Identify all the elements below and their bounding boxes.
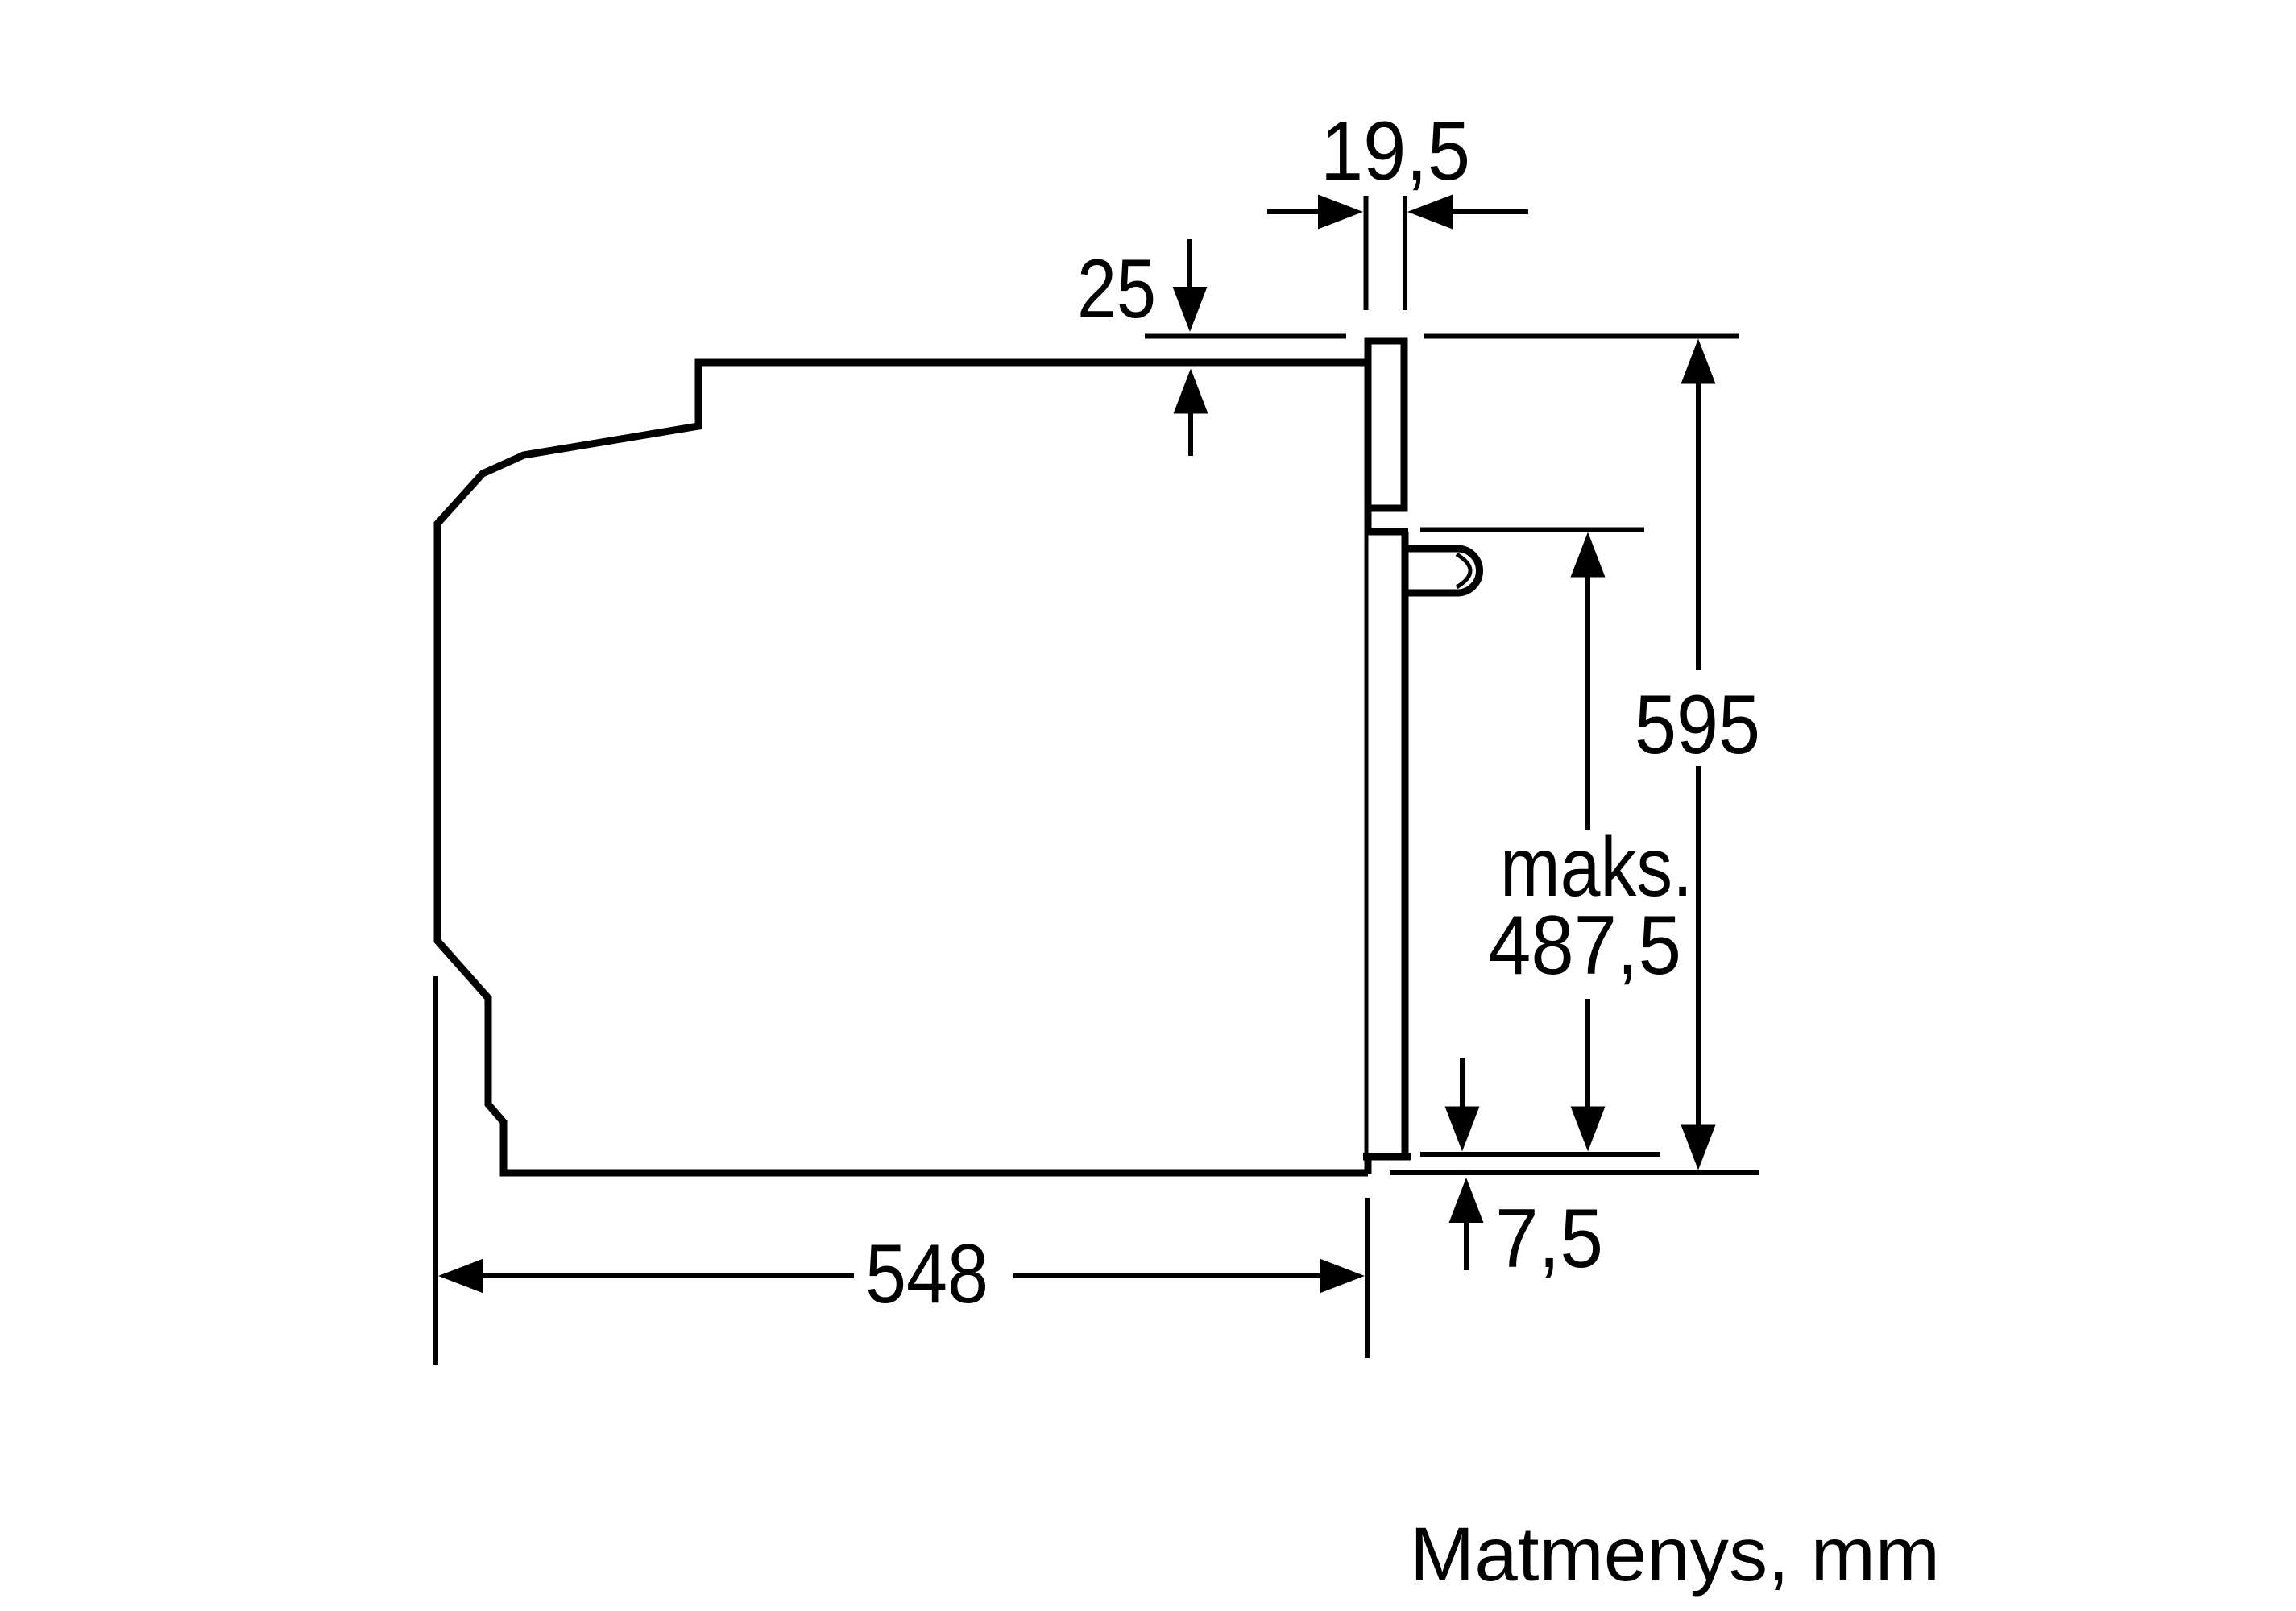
svg-text:487,5: 487,5 <box>1488 899 1681 992</box>
svg-text:548: 548 <box>865 1228 988 1321</box>
svg-text:Matmenys, mm: Matmenys, mm <box>1410 1512 1940 1597</box>
svg-text:595: 595 <box>1635 678 1760 772</box>
svg-text:19,5: 19,5 <box>1320 105 1470 198</box>
svg-text:25: 25 <box>1077 242 1156 336</box>
svg-text:7,5: 7,5 <box>1495 1192 1603 1286</box>
